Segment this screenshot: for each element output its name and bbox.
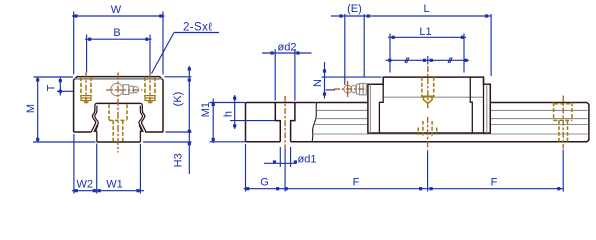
rail bottom edge (cross-section) bbox=[97, 141, 141, 143]
cavity top line bbox=[97, 102, 141, 104]
dimension od2 bbox=[262, 49, 312, 101]
dimension N bbox=[322, 62, 382, 99]
svg-text:L: L bbox=[423, 3, 429, 15]
rail left end (sectioned) bbox=[245, 103, 247, 142]
dimension od1 bbox=[264, 147, 297, 192]
middle rail hole (hidden under block) bbox=[418, 121, 436, 136]
dimensions W2 / W1 bbox=[72, 134, 144, 194]
svg-text:h: h bbox=[223, 111, 235, 117]
screw hole left centerline bbox=[85, 73, 87, 105]
svg-text:(E): (E) bbox=[347, 3, 362, 15]
dimension T bbox=[57, 77, 73, 96]
svg-text:N: N bbox=[312, 79, 324, 87]
tapped hole on block top (hidden) bbox=[421, 77, 435, 103]
rail bottom edge (side view) bbox=[246, 141, 588, 143]
block bottom edges bbox=[74, 131, 163, 133]
end seal gray lines bbox=[369, 84, 371, 133]
right rail hole (hidden) bbox=[554, 103, 572, 142]
svg-text:M1: M1 bbox=[200, 102, 212, 117]
grease nipple (front view, gray) bbox=[111, 83, 139, 95]
svg-text:2-Sxℓ: 2-Sxℓ bbox=[183, 22, 212, 34]
dimension B bbox=[85, 35, 152, 73]
right internal boundary with jog bbox=[470, 77, 472, 133]
gray seam line across block (side view) bbox=[384, 96, 483, 98]
svg-text:L1: L1 bbox=[419, 26, 431, 38]
rail mounting hole (hidden, cross-section view) bbox=[109, 104, 127, 141]
svg-text:ød1: ød1 bbox=[298, 154, 317, 166]
dimension M1 bbox=[210, 99, 246, 144]
block outline (cross-section) bbox=[74, 77, 163, 132]
rail groove line under block bbox=[368, 133, 491, 135]
dimension M bbox=[33, 77, 96, 142]
svg-text:W1: W1 bbox=[106, 179, 123, 191]
nipple centerline (side view) bbox=[334, 88, 367, 90]
svg-text:(K): (K) bbox=[172, 92, 184, 107]
svg-text:F: F bbox=[491, 177, 498, 189]
svg-text:W2: W2 bbox=[77, 179, 94, 191]
left rail hole centerline bbox=[284, 96, 286, 149]
block outline (side view) bbox=[368, 77, 490, 133]
rail groove lines (gray) left of block bbox=[313, 110, 368, 134]
block arm and rail groove profile left bbox=[91, 103, 98, 142]
dimension (K) and H3 shared line bbox=[143, 66, 192, 174]
rail right end with chamfers bbox=[587, 103, 589, 142]
svg-text:H3: H3 bbox=[172, 153, 184, 167]
dimensions G / F / F bbox=[244, 144, 565, 192]
left end cap boundary with jog bbox=[379, 84, 383, 133]
dimension W bbox=[72, 12, 165, 75]
nipple centerline cross bbox=[106, 89, 143, 91]
svg-text:B: B bbox=[113, 27, 120, 39]
gray seam line on block top bbox=[75, 78, 162, 80]
dimension (E) and L shared line bbox=[331, 14, 491, 85]
screw hole right (2-S, hidden lines) bbox=[144, 77, 155, 103]
chain dimension row with equal marks bbox=[386, 56, 470, 65]
block arm and rail groove profile right bbox=[139, 103, 146, 142]
screw hole left (2-S, hidden lines) bbox=[80, 77, 91, 103]
rail counterbored hole (sectioned) bbox=[275, 103, 295, 142]
section break line bbox=[312, 103, 317, 142]
svg-text:W: W bbox=[111, 4, 122, 16]
svg-text:T: T bbox=[45, 84, 57, 91]
block vertical centerline bbox=[117, 73, 119, 153]
screw hole right centerline bbox=[149, 73, 151, 105]
grease nipple (side view, gray) bbox=[344, 83, 366, 95]
svg-text:ød2: ød2 bbox=[278, 42, 297, 54]
svg-text:F: F bbox=[353, 177, 360, 189]
svg-text:M: M bbox=[25, 104, 37, 113]
rail top edge (side view) bbox=[246, 102, 588, 104]
tapped hole centerline bbox=[427, 66, 429, 109]
right end cap boundary bbox=[483, 77, 485, 133]
rail groove lines (gray) right of block bbox=[491, 110, 588, 134]
dimension L1 bbox=[388, 34, 466, 73]
svg-text:G: G bbox=[260, 177, 269, 189]
dimension h bbox=[230, 95, 275, 129]
right rail hole centerline bbox=[562, 96, 564, 149]
nipple tick mark bbox=[347, 81, 349, 97]
middle rail hole centerline bbox=[427, 117, 429, 150]
